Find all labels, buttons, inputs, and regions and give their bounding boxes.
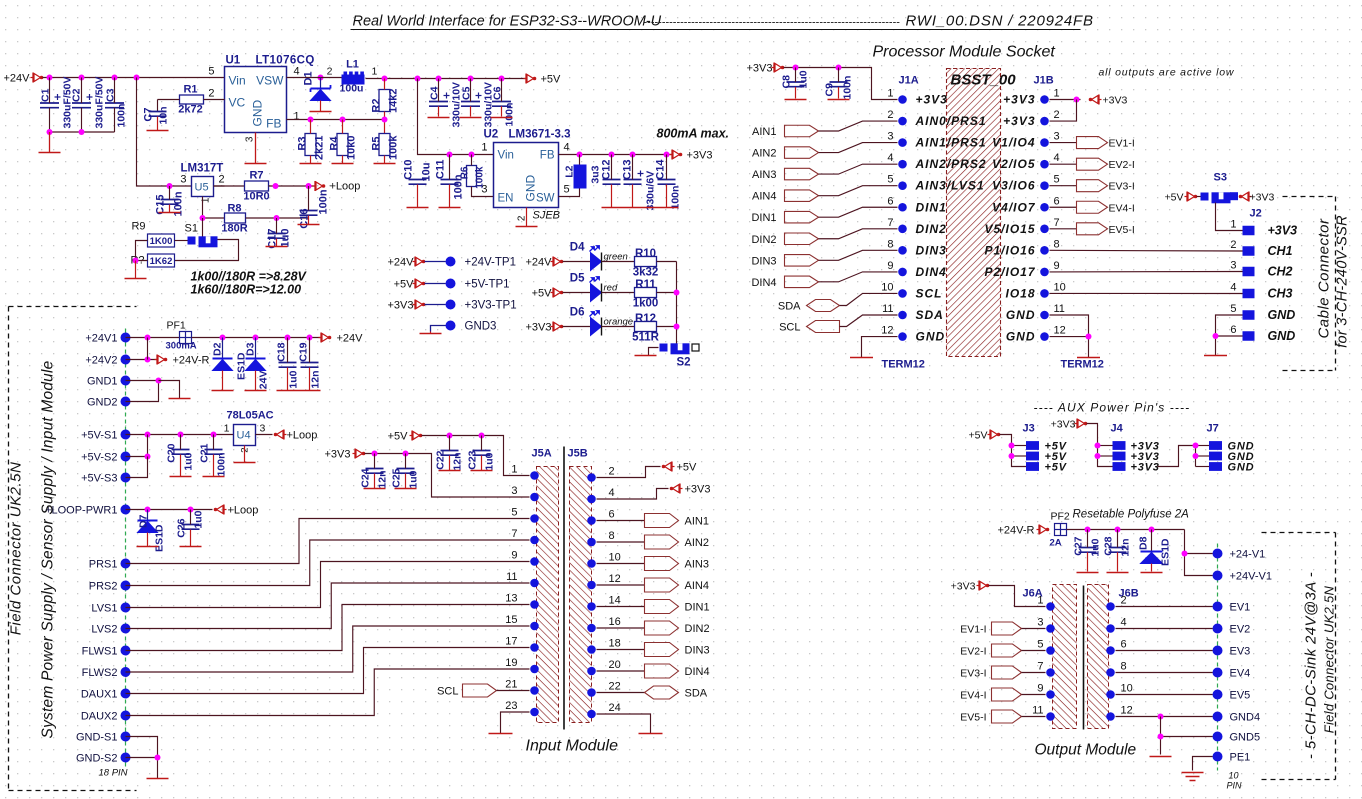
svg-text:100n: 100n <box>318 189 330 214</box>
svg-text:EN: EN <box>498 193 514 205</box>
svg-text:21: 21 <box>505 679 517 691</box>
svg-text:+5V-S2: +5V-S2 <box>81 452 117 464</box>
wire AIN3 to J1A pin 4 <box>819 164 898 174</box>
testpoint GND3 <box>431 326 451 332</box>
svg-text:100k: 100k <box>388 135 400 160</box>
svg-text:DIN1: DIN1 <box>916 200 947 214</box>
svg-text:C7: C7 <box>143 108 155 122</box>
svg-text:11: 11 <box>506 571 517 583</box>
connector J1B pin 1 <box>1040 95 1049 104</box>
svg-text:9: 9 <box>1054 260 1060 272</box>
svg-text:2: 2 <box>219 174 225 186</box>
svg-text:LVS1: LVS1 <box>91 603 117 615</box>
svg-text:+3V3: +3V3 <box>1268 224 1298 238</box>
capacitor C17 <box>268 233 286 235</box>
power net +Loop arrow <box>322 184 326 188</box>
svg-text:+5V: +5V <box>541 74 562 86</box>
wire +5V to D5 <box>563 292 591 294</box>
hatched strip J6A <box>1053 585 1077 729</box>
svg-text:GND: GND <box>1228 462 1255 474</box>
connector J7 pin <box>1209 441 1222 450</box>
svg-text:P2/IO17: P2/IO17 <box>984 265 1035 279</box>
wire J1B pin10 to CH3 <box>1050 292 1243 294</box>
connector J1B pin 6 <box>1040 203 1049 212</box>
svg-text:R11: R11 <box>635 279 656 291</box>
earth ground PE1 <box>1182 772 1204 774</box>
wire J5B pin4 to +3V3 <box>597 489 669 500</box>
ground C18 <box>277 390 299 392</box>
svg-text:+Loop: +Loop <box>228 505 259 517</box>
wire J7 gnd bracket <box>1195 446 1197 467</box>
wire +24V to D4 <box>563 261 591 263</box>
ground C16 <box>298 224 320 226</box>
connector J5B pin 14 <box>587 602 596 611</box>
svg-text:C28: C28 <box>1103 536 1115 555</box>
svg-text:20: 20 <box>609 659 621 671</box>
svg-text:GND-S1: GND-S1 <box>76 732 118 744</box>
svg-text:IO18: IO18 <box>1005 286 1035 300</box>
svg-text:S3: S3 <box>1214 172 1227 184</box>
svg-text:78L05AC: 78L05AC <box>227 410 274 422</box>
ic U2 LM3671-3.3 <box>494 143 559 208</box>
wire R10 to bus <box>657 261 677 263</box>
ground J2 <box>1204 355 1227 357</box>
ground C10 <box>407 207 429 209</box>
svg-text:FLWS1: FLWS1 <box>82 646 118 658</box>
svg-text:+3V3: +3V3 <box>1250 192 1275 204</box>
svg-text:CH3: CH3 <box>1268 287 1293 301</box>
connector pin EV4 <box>1213 668 1223 678</box>
svg-text:10u: 10u <box>421 163 433 182</box>
svg-text:C2: C2 <box>71 88 83 102</box>
svg-text:DIN2: DIN2 <box>751 234 776 246</box>
wire J1B pin2 up <box>1050 100 1077 122</box>
svg-text:DAUX1: DAUX1 <box>81 689 118 701</box>
svg-text:2k72: 2k72 <box>178 104 202 116</box>
connector J1A pin 4 <box>898 160 907 169</box>
wire R7 to +Loop <box>269 185 317 187</box>
svg-text:9: 9 <box>511 550 517 562</box>
svg-text:U4: U4 <box>237 430 251 442</box>
svg-text:D4: D4 <box>570 242 585 254</box>
wire LED common bus <box>676 262 678 348</box>
ground C22 <box>439 470 461 472</box>
wire PF1 to +24V arrow <box>192 337 323 339</box>
ground C24 <box>364 488 386 490</box>
svg-text:7: 7 <box>1037 661 1043 673</box>
ground R3 <box>300 163 322 165</box>
resistor R7 <box>245 181 269 191</box>
hatched strip J6B <box>1088 585 1109 729</box>
svg-text:Processor Module Socket: Processor Module Socket <box>873 44 1056 61</box>
diode D8 <box>1151 530 1153 552</box>
wire J5B to DIN1 <box>597 606 645 608</box>
power net +3V3 arrow <box>679 153 683 157</box>
wire L1 to +5V <box>366 78 528 80</box>
svg-text:GND3: GND3 <box>465 321 497 333</box>
connector pin EV3 <box>1213 646 1223 656</box>
wire J5B pin2 to +5V <box>597 467 661 478</box>
wire S2 to ground <box>649 348 659 356</box>
svg-text:Resetable Polyfuse 2A: Resetable Polyfuse 2A <box>1073 509 1190 521</box>
svg-text:+3V3: +3V3 <box>1103 95 1128 107</box>
svg-text:GND-S2: GND-S2 <box>76 753 118 765</box>
capacitor C25 <box>397 468 415 470</box>
connector J4 pin <box>1113 462 1126 471</box>
svg-text:300mA: 300mA <box>166 341 197 352</box>
svg-text:+24V-R: +24V-R <box>998 525 1035 537</box>
svg-text:1: 1 <box>1037 595 1043 607</box>
svg-text:1: 1 <box>372 66 378 78</box>
wire S1 net <box>202 218 204 237</box>
svg-text:S2: S2 <box>677 357 691 369</box>
wire DIN4 to J1A pin 9 <box>819 272 898 282</box>
svg-text:EV4-I: EV4-I <box>960 690 986 702</box>
svg-text:R4: R4 <box>329 136 341 151</box>
svg-text:+5V: +5V <box>969 430 988 442</box>
svg-text:3: 3 <box>511 485 517 497</box>
svg-text:AIN1: AIN1 <box>685 516 709 528</box>
connector J1B pin 3 <box>1040 138 1049 147</box>
svg-text:1k00//180R =>8.28V: 1k00//180R =>8.28V <box>191 270 308 284</box>
svg-text:DIN2: DIN2 <box>916 222 947 236</box>
svg-text:Vin: Vin <box>498 150 514 162</box>
svg-text:+3V3: +3V3 <box>916 93 948 107</box>
capacitor C14 <box>658 179 676 181</box>
resistor R3 <box>305 134 316 156</box>
svg-text:+3V3-TP1: +3V3-TP1 <box>465 300 517 312</box>
connector J6A pin 7 <box>1046 668 1055 677</box>
connector J5B pin 22 <box>587 688 596 697</box>
ground S2 <box>635 355 657 357</box>
connector J5B pin 24 <box>587 710 596 719</box>
wire +24V rail <box>43 77 225 79</box>
wire C7 to R1 <box>158 99 180 101</box>
svg-text:D2: D2 <box>212 342 224 356</box>
connector J5A pin 17 <box>530 643 539 652</box>
svg-text:+5V-TP1: +5V-TP1 <box>465 279 510 291</box>
resistor R11 <box>635 288 657 298</box>
svg-text:Input Module: Input Module <box>526 738 619 755</box>
svg-text:ES1D: ES1D <box>154 524 166 552</box>
connector J6B pin 12 <box>1106 712 1115 721</box>
svg-text:+3V3: +3V3 <box>1051 419 1076 431</box>
svg-text:+24V: +24V <box>337 333 364 345</box>
wire left of R9/R62 <box>136 241 148 261</box>
connector J4 pin <box>1113 441 1126 450</box>
svg-text:+3V3: +3V3 <box>526 322 552 334</box>
svg-text:C8: C8 <box>781 75 793 89</box>
ground GND-S <box>147 778 169 780</box>
connector pin GND5 <box>1213 732 1223 742</box>
svg-text:3: 3 <box>1230 260 1236 272</box>
connector pin EV5 <box>1213 690 1223 700</box>
svg-text:+3V3: +3V3 <box>685 484 711 496</box>
wire J5B to DIN2 <box>597 627 645 629</box>
resistor R12 <box>635 322 657 332</box>
svg-text:2: 2 <box>1121 595 1127 607</box>
svg-text:R8: R8 <box>227 203 241 215</box>
wire PF2 to caps <box>1067 529 1185 531</box>
svg-text:LM317T: LM317T <box>181 163 224 175</box>
svg-text:1u0: 1u0 <box>288 370 300 388</box>
resistor R5 <box>379 134 390 156</box>
wire J5B to AIN1 <box>597 520 645 522</box>
wire PRS1 to J5A <box>126 519 530 564</box>
ground R5 <box>374 163 396 165</box>
svg-text:U2: U2 <box>484 129 499 141</box>
svg-text:R6: R6 <box>460 166 471 179</box>
divider output module <box>1083 586 1085 730</box>
connector J5B pin 18 <box>587 645 596 654</box>
svg-text:FB: FB <box>266 117 281 131</box>
connector pin EV2 <box>1213 624 1223 634</box>
capacitor C28 <box>1109 547 1127 549</box>
ground U4 <box>244 446 246 463</box>
svg-text:+24V: +24V <box>388 257 415 269</box>
connector J1A pin 11 <box>898 311 907 320</box>
svg-text:D7: D7 <box>138 514 150 528</box>
svg-text:C26: C26 <box>176 518 188 537</box>
svg-text:green: green <box>604 252 628 263</box>
svg-text:+24V-V1: +24V-V1 <box>1230 571 1273 583</box>
wire AIN1 to J1A pin 2 <box>819 121 898 131</box>
resistor R1 <box>180 95 204 104</box>
connector J3 pin <box>1026 441 1039 450</box>
connector J3 pin <box>1026 452 1039 461</box>
capacitor C1 <box>40 102 59 104</box>
svg-text:GND4: GND4 <box>1230 712 1261 724</box>
net flag SDA input <box>645 686 679 699</box>
svg-text:LM3671-3.3: LM3671-3.3 <box>509 129 571 141</box>
resistor R? 1K62 <box>148 254 175 267</box>
connector J5A pin 7 <box>530 536 539 545</box>
svg-text:D3: D3 <box>245 342 257 356</box>
capacitor C15 <box>161 199 179 201</box>
svg-text:Field Connector UK2.5N: Field Connector UK2.5N <box>1322 585 1337 733</box>
wire DAUX2 to J5A <box>126 669 530 716</box>
svg-text:C1: C1 <box>40 88 52 102</box>
svg-text:C18: C18 <box>276 342 288 361</box>
connector J6A pin 11 <box>1046 712 1055 721</box>
wire GND-S1 GND-S2 <box>126 737 158 779</box>
svg-text:EV1: EV1 <box>1230 602 1251 614</box>
connector J6B pin 8 <box>1106 668 1115 677</box>
svg-text:D1: D1 <box>303 71 315 85</box>
resistor R8 <box>225 213 246 223</box>
svg-text:8: 8 <box>1121 661 1127 673</box>
svg-text:+Loop: +Loop <box>330 181 361 193</box>
svg-text:AIN2/PRS2: AIN2/PRS2 <box>915 157 987 171</box>
capacitor C23 <box>473 450 491 452</box>
wire J6B pin8 to EV4 <box>1116 672 1213 674</box>
dashed frame cable connector <box>1283 196 1336 198</box>
connector J2 pin 4 <box>1243 289 1255 299</box>
ground C26 <box>180 546 202 548</box>
svg-text:10: 10 <box>1054 281 1066 293</box>
svg-text:+24V1: +24V1 <box>85 333 117 345</box>
wire J6B pin2 to EV1 <box>1116 606 1213 608</box>
svg-text:+5V: +5V <box>394 279 415 291</box>
svg-text:SCL: SCL <box>916 286 943 300</box>
net flag DIN3 input <box>645 643 679 657</box>
svg-text:+3V3: +3V3 <box>951 581 976 593</box>
svg-text:15: 15 <box>505 614 517 626</box>
wire LVS2 to J5A <box>126 583 530 629</box>
svg-text:4: 4 <box>1121 617 1127 629</box>
svg-text:for 3-CH-240V-SSR: for 3-CH-240V-SSR <box>1335 215 1351 348</box>
svg-text:ES1D: ES1D <box>1160 538 1172 566</box>
svg-text:1K62: 1K62 <box>150 256 173 267</box>
connector J1A pin 5 <box>898 181 907 190</box>
svg-text:J4: J4 <box>1111 423 1124 435</box>
connector J1A pin 12 <box>898 332 907 341</box>
svg-text:7: 7 <box>1054 217 1060 229</box>
svg-text:6: 6 <box>1230 324 1236 336</box>
svg-text:100n: 100n <box>842 76 854 100</box>
svg-text:24V: 24V <box>258 371 270 390</box>
connector J5B pin 16 <box>587 624 596 633</box>
ground GND1/2 <box>169 398 191 400</box>
svg-text:1u0: 1u0 <box>408 470 420 488</box>
net flag EV3-I right <box>1050 185 1077 187</box>
capacitor C4 <box>429 101 448 103</box>
wire DIN3 to J1A pin 8 <box>819 250 898 260</box>
power net +Loop at U4 <box>274 433 278 437</box>
svg-text:10: 10 <box>881 281 893 293</box>
svg-text:PIN: PIN <box>1227 781 1243 791</box>
svg-text:10: 10 <box>1229 771 1239 781</box>
capacitor C8 <box>787 81 805 83</box>
ground D3 <box>245 390 267 392</box>
svg-text:4: 4 <box>1054 152 1060 164</box>
svg-text:orange: orange <box>604 317 634 328</box>
svg-text:5: 5 <box>208 66 214 78</box>
ground TERM12 A <box>850 357 873 359</box>
svg-text:R1: R1 <box>183 84 197 96</box>
svg-text:+5V: +5V <box>677 462 698 474</box>
svg-text:24: 24 <box>609 702 621 714</box>
svg-text:100n: 100n <box>216 453 228 477</box>
wire cap bottom bus <box>50 131 115 133</box>
svg-text:12: 12 <box>881 325 893 337</box>
wire EV1-I to J6A <box>1022 628 1046 630</box>
svg-text:C14: C14 <box>655 159 667 180</box>
svg-text:VC: VC <box>229 96 246 110</box>
svg-text:L1: L1 <box>346 59 359 71</box>
wire SCL to J5A pin21 <box>497 690 530 692</box>
capacitor C22 <box>441 450 459 452</box>
connector J2 pin 5 <box>1243 310 1255 320</box>
resistor R10 <box>635 257 657 267</box>
svg-text:R5: R5 <box>371 137 383 151</box>
svg-text:LT1076CQ: LT1076CQ <box>256 55 315 67</box>
svg-text:+3V3: +3V3 <box>325 449 351 461</box>
wire R11 to bus <box>657 292 677 294</box>
svg-text:800mA max.: 800mA max. <box>657 127 730 141</box>
ground C21 <box>203 476 225 478</box>
svg-text:2: 2 <box>517 215 528 221</box>
svg-text:J2: J2 <box>1250 208 1262 220</box>
wire DAUX1 to J5A <box>126 648 530 694</box>
wire +LOOP-PWR1 <box>126 509 213 511</box>
wire D6 to R12 <box>602 326 635 328</box>
capacitor C21 <box>205 449 223 451</box>
svg-text:1k00: 1k00 <box>633 298 659 310</box>
ground C19 <box>299 390 321 392</box>
svg-text:1K00: 1K00 <box>150 236 173 247</box>
svg-text:1u0: 1u0 <box>1090 538 1102 556</box>
svg-text:C25: C25 <box>391 468 403 487</box>
connector J5A pin 15 <box>530 622 539 631</box>
svg-text:+24V: +24V <box>526 257 553 269</box>
svg-text:14k2: 14k2 <box>388 89 400 113</box>
svg-text:V5/IO15: V5/IO15 <box>984 222 1035 236</box>
wire J5B pin24 ground <box>597 714 651 734</box>
svg-text:GND: GND <box>1006 308 1036 322</box>
svg-text:+3V3: +3V3 <box>747 63 773 75</box>
svg-text:1k60//180R=>12.00: 1k60//180R=>12.00 <box>191 283 302 297</box>
resistor R4 <box>337 134 348 156</box>
net flag AIN2 input <box>645 535 679 549</box>
connector J1B pin 4 <box>1040 160 1049 169</box>
ground TERM12 B <box>1077 357 1100 359</box>
svg-text:PRS1: PRS1 <box>89 559 118 571</box>
svg-text:DIN1: DIN1 <box>685 602 710 614</box>
svg-text:GND: GND <box>524 175 538 202</box>
ground C11 <box>439 207 461 209</box>
net flag EV2-I right <box>1050 163 1077 165</box>
connector J3 pin <box>1026 462 1039 471</box>
capacitor C6 <box>492 101 511 103</box>
power net +Loop left <box>214 508 218 512</box>
wire J1B pin9 to CH2 <box>1050 271 1243 273</box>
svg-text:1u0: 1u0 <box>280 229 292 248</box>
led D4 <box>591 253 602 271</box>
net flag AIN1 input <box>645 514 679 528</box>
svg-text:DIN1: DIN1 <box>751 212 776 224</box>
svg-text:DIN3: DIN3 <box>916 243 947 257</box>
svg-text:12n: 12n <box>377 471 389 489</box>
svg-text:14: 14 <box>609 595 621 607</box>
ground D2 <box>212 390 234 392</box>
connector J1B pin 10 <box>1040 289 1049 298</box>
svg-text:1: 1 <box>224 423 230 435</box>
hatched strip J5B <box>570 467 592 723</box>
svg-text:- 5-CH-DC-Sink 24V@3A -: - 5-CH-DC-Sink 24V@3A - <box>1303 572 1320 759</box>
svg-text:GND: GND <box>1006 330 1036 344</box>
ground below C7 <box>147 130 169 132</box>
svg-text:11: 11 <box>1054 303 1065 315</box>
svg-text:TERM12: TERM12 <box>882 359 925 371</box>
wire U4 out +Loop <box>256 434 273 436</box>
svg-text:C24: C24 <box>360 468 372 487</box>
svg-text:GND: GND <box>251 100 265 127</box>
svg-text:1u0: 1u0 <box>798 70 810 88</box>
svg-text:J3: J3 <box>1023 423 1035 435</box>
svg-text:R12: R12 <box>635 313 656 325</box>
wire J6B pin4 to EV2 <box>1116 628 1213 630</box>
svg-text:LVS2: LVS2 <box>91 624 117 636</box>
svg-text:3: 3 <box>245 136 256 142</box>
svg-text:2: 2 <box>609 466 615 478</box>
svg-text:AIN4: AIN4 <box>752 191 776 203</box>
ground C17 <box>266 246 288 248</box>
capacitor C2 <box>72 102 91 104</box>
wire AIN4 to J1A pin 5 <box>819 186 898 196</box>
led D6 <box>591 318 602 336</box>
svg-text:7: 7 <box>511 528 517 540</box>
